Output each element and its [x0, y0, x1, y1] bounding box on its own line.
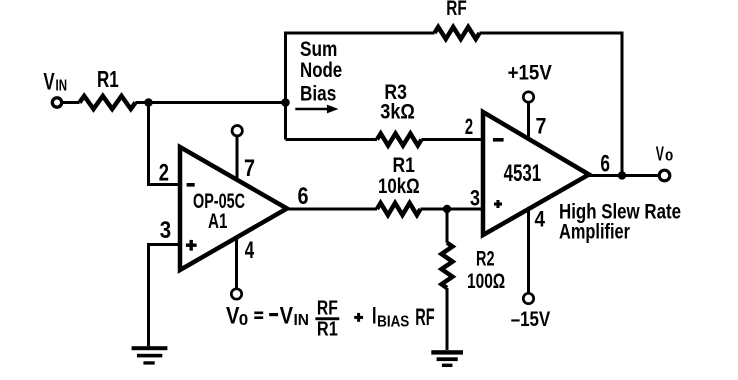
svg-text:2: 2	[465, 114, 473, 139]
svg-text:R1: R1	[97, 66, 119, 92]
resistor R1 (input)	[80, 96, 136, 109]
wire R2 top lead	[446, 209, 449, 243]
terminal A1 pin 7	[232, 126, 242, 136]
svg-text:2: 2	[159, 159, 169, 186]
svg-text:RF: RF	[415, 304, 434, 331]
svg-text:I: I	[372, 302, 377, 329]
svg-text:V: V	[280, 302, 294, 329]
svg-text:3kΩ: 3kΩ	[380, 100, 415, 124]
svg-text:0: 0	[665, 148, 673, 163]
arrow sum node bias	[295, 105, 338, 114]
wire A1 pin 3	[149, 245, 181, 347]
node sum node	[281, 98, 290, 107]
ground right	[431, 350, 463, 367]
wire down to A1 pin 2	[149, 103, 181, 185]
minus 4531	[493, 138, 504, 142]
wire VIN to R1	[63, 101, 80, 104]
svg-text:6: 6	[600, 151, 610, 178]
resistor R3	[377, 134, 422, 146]
wire R3 to 4531 pin 2	[422, 138, 484, 141]
plus 4531	[494, 200, 502, 208]
svg-text:4531: 4531	[504, 160, 541, 187]
label Sum Node Bias	[300, 37, 342, 105]
svg-text:IN: IN	[294, 312, 310, 329]
ground left	[132, 346, 168, 364]
wire A1 pin 7	[236, 137, 239, 180]
svg-text:7: 7	[536, 114, 547, 139]
svg-text:RF: RF	[317, 296, 338, 319]
wire 4531 pin 7	[527, 103, 530, 140]
svg-text:R2: R2	[476, 247, 495, 271]
resistor RF	[435, 27, 480, 39]
label VO output	[656, 142, 674, 165]
terminal +15V	[523, 92, 533, 102]
wire top rail left	[284, 32, 435, 35]
wire A1 output	[287, 208, 377, 211]
svg-text:6: 6	[298, 183, 309, 210]
svg-text:V: V	[43, 68, 54, 95]
svg-text:0: 0	[239, 312, 249, 329]
wire R1 to 4531 pin 3	[421, 208, 484, 211]
wire sum node vertical	[284, 32, 287, 140]
wire 4531 output	[589, 174, 658, 177]
resistor R1 (10k)	[377, 203, 421, 215]
svg-text:IN: IN	[56, 77, 68, 94]
terminal VIN	[52, 98, 61, 107]
terminal A1 pin 4	[231, 289, 241, 299]
op-amp U2 4531 triangle	[483, 112, 589, 235]
label VIN	[43, 68, 67, 95]
svg-text:3: 3	[470, 185, 480, 210]
svg-text:V: V	[656, 142, 664, 165]
wire A1 pin 4	[235, 238, 238, 289]
terminal -15V	[523, 293, 533, 303]
op-amp A1 triangle	[180, 147, 287, 270]
node output	[618, 171, 626, 179]
svg-text:–15V: –15V	[511, 307, 551, 331]
svg-text:A1: A1	[208, 210, 228, 233]
svg-text:Amplifier: Amplifier	[559, 220, 630, 244]
svg-text:3: 3	[160, 217, 171, 244]
plus A1	[186, 240, 197, 251]
wire R2 bottom lead	[446, 288, 449, 350]
svg-text:+15V: +15V	[508, 61, 553, 85]
svg-text:R1: R1	[317, 317, 338, 340]
node R2 top	[443, 205, 451, 213]
svg-text:Bias: Bias	[300, 81, 336, 105]
svg-text:BIAS: BIAS	[377, 313, 409, 330]
terminal VO	[659, 170, 670, 181]
svg-text:4: 4	[245, 237, 255, 264]
svg-text:4: 4	[535, 207, 546, 232]
minus A1	[187, 183, 195, 187]
node at R1/A1 input	[144, 98, 153, 107]
wire 4531 pin 4	[527, 208, 530, 293]
wire R1 to sum node	[136, 101, 286, 104]
svg-text:100Ω: 100Ω	[467, 269, 505, 293]
svg-text:Node: Node	[300, 58, 342, 82]
svg-text:RF: RF	[446, 0, 467, 20]
svg-text:10kΩ: 10kΩ	[378, 174, 420, 198]
resistor R2	[442, 243, 453, 288]
formula VO = -VIN RF/R1 + IBIAS RF	[226, 296, 435, 340]
svg-text:7: 7	[244, 155, 255, 182]
wire top rail right	[480, 33, 623, 176]
wire sum node to R3	[286, 138, 378, 141]
